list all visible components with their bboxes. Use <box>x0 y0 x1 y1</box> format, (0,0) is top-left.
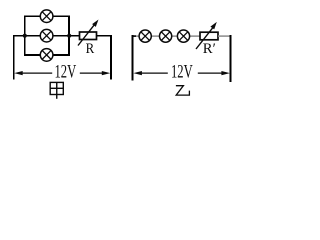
dimension arrow left (jia 12V) <box>14 71 52 75</box>
wire: middle branch from left terminal through junctions to rheostat R <box>13 35 80 37</box>
wire: R' to right corner <box>218 35 230 37</box>
svg-text:R′: R′ <box>203 41 216 57</box>
rheostat R body <box>80 32 97 40</box>
rheostat R arrow <box>78 20 99 46</box>
node A: junction dot left bus / middle branch <box>23 34 27 38</box>
lamp L6 (circle with X) <box>177 30 189 42</box>
rheostat R' arrow <box>196 22 217 49</box>
lamp L3 (bottom, circle with X) <box>40 49 53 62</box>
lamp L2 (middle, circle with X) <box>40 29 53 42</box>
svg-text:12V: 12V <box>171 63 193 83</box>
wire: yi left terminal lead down <box>131 35 133 80</box>
label R' <box>203 41 216 57</box>
svg-text:12V: 12V <box>55 63 77 83</box>
wire: right terminal lead down <box>110 35 112 80</box>
lamp L1 (top, circle with X) <box>40 10 53 23</box>
value label 12V (jia) <box>55 63 77 83</box>
value label 12V (yi) <box>171 63 193 83</box>
wire: parallel bank rectangle (top branch, left bus, bottom branch, right bus) <box>25 16 69 55</box>
node B: junction dot right bus / middle branch <box>67 34 71 38</box>
wire: R to right terminal <box>97 35 112 37</box>
label jia (Chinese char) <box>50 82 63 98</box>
lamp L4 (circle with X) <box>139 30 151 42</box>
label R <box>86 41 95 57</box>
lamp L5 (circle with X) <box>160 30 172 42</box>
wire: yi left corner + horizontal run <box>132 35 201 37</box>
dimension arrow right (yi 12V) <box>198 71 230 75</box>
svg-text:R: R <box>86 41 95 57</box>
wire: left terminal lead down <box>13 35 15 80</box>
dimension arrow left (yi 12V) <box>133 71 167 75</box>
wire: yi right terminal lead down <box>230 35 232 82</box>
rheostat R' body <box>200 32 218 40</box>
dimension arrow right (jia 12V) <box>80 71 111 75</box>
label yi (Chinese char) <box>176 86 190 95</box>
